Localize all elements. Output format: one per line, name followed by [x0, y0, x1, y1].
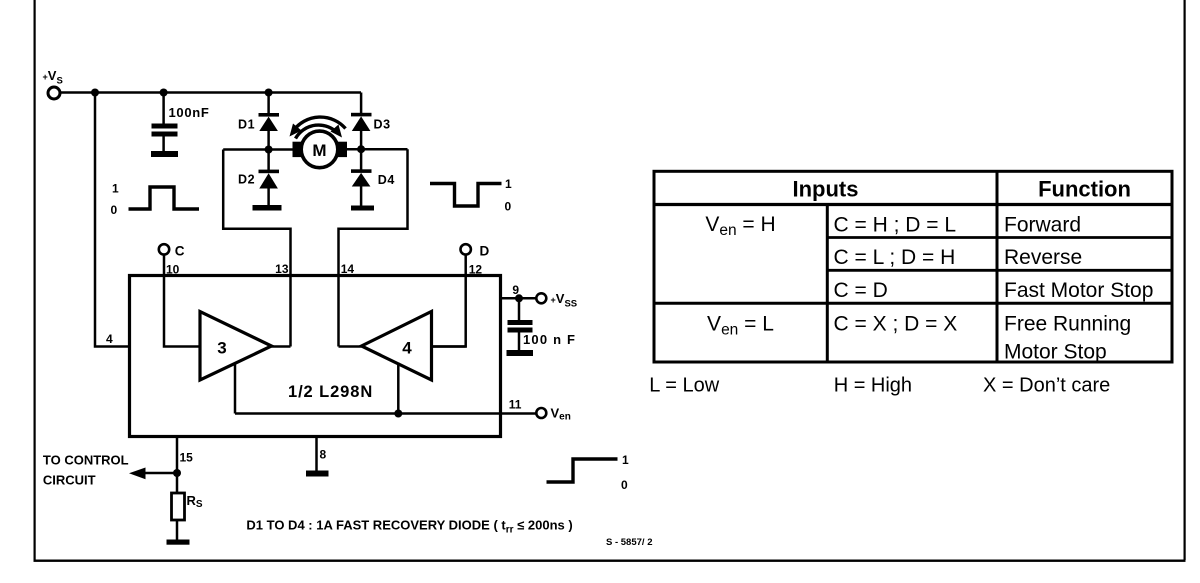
svg-text:RS: RS [187, 493, 203, 510]
page frame bottom border [34, 560, 1186, 562]
svg-text:Function: Function [1038, 177, 1131, 202]
svg-text:Free Running: Free Running [1004, 313, 1131, 336]
diode D4 wire top [360, 149, 363, 169]
svg-text:+VSS: +VSS [551, 291, 578, 310]
wire motor right [347, 148, 408, 151]
terminal Ven circle [536, 408, 546, 418]
svg-text:D: D [480, 244, 490, 259]
diode D3 cathode bar [351, 113, 372, 117]
pin 15 wire [176, 437, 179, 473]
svg-text:D4: D4 [378, 173, 395, 187]
svg-text:Ven: Ven [551, 406, 571, 423]
truth table header separator [654, 203, 1172, 206]
svg-text:D1 TO D4 : 1A FAST RECOVERY DI: D1 TO D4 : 1A FAST RECOVERY DIODE ( trr … [246, 518, 572, 536]
svg-text:1: 1 [505, 177, 512, 191]
wire enable rail to pin 11 [235, 412, 537, 415]
svg-text:M: M [312, 141, 326, 160]
wire D to pin 12 [432, 255, 466, 347]
ground bar under D4 [351, 206, 374, 211]
diode D4 wire bottom [360, 187, 363, 207]
op-amp 3 triangle [200, 312, 272, 381]
wire amp3 output to pin 13 [272, 345, 291, 348]
capacitor C2 wire [518, 298, 521, 320]
node motor left junction [265, 146, 273, 154]
capacitor C1 wire [162, 93, 165, 125]
node junction cap branch [160, 89, 168, 97]
wire right bracket to pin 14 [339, 149, 408, 346]
truth table column divider function [996, 171, 999, 362]
pin 8 wire [315, 437, 318, 471]
terminal +Vs circle [48, 87, 60, 99]
ground bar pin 8 [306, 471, 329, 477]
node motor right junction [357, 145, 365, 153]
svg-text:11: 11 [509, 398, 522, 412]
svg-text:D2: D2 [238, 173, 255, 187]
node pin 15 junction [173, 469, 181, 477]
svg-text:8: 8 [320, 448, 327, 462]
svg-text:C = D: C = D [834, 279, 888, 302]
svg-text:Forward: Forward [1004, 214, 1081, 237]
svg-text:100 n F: 100 n F [523, 332, 576, 347]
wire C to pin 10 [164, 255, 200, 347]
svg-text:4: 4 [106, 332, 113, 346]
diode D4 cathode bar [351, 169, 372, 173]
svg-text:Inputs: Inputs [793, 177, 859, 202]
rotation arrow outer arc [294, 117, 346, 130]
page frame right border [1184, 0, 1186, 560]
wire to pin 4 [95, 93, 130, 347]
diode D3 wire top [360, 93, 363, 114]
diode D2 wire top [267, 150, 270, 171]
svg-text:C = L ; D = H: C = L ; D = H [834, 246, 956, 269]
svg-text:3: 3 [217, 339, 226, 358]
waveform C input pulse [129, 187, 200, 209]
capacitor C1 plate top [152, 124, 178, 129]
diode D1 wire top [267, 93, 270, 114]
wire amp4 enable down [397, 363, 400, 414]
wire +Vs rail [61, 91, 362, 94]
svg-text:CIRCUIT: CIRCUIT [43, 472, 96, 487]
motor M body [301, 131, 338, 168]
resistor Rs wire bottom [176, 520, 179, 540]
capacitor C2 plate bottom [508, 328, 533, 333]
svg-text:14: 14 [341, 262, 355, 276]
node junction pin4 branch [91, 89, 99, 97]
capacitor C2 plate top [508, 320, 533, 325]
svg-text:4: 4 [402, 339, 412, 358]
capacitor C2 lower wire [518, 333, 521, 351]
svg-text:Motor Stop: Motor Stop [1004, 341, 1107, 364]
svg-text:TO CONTROL: TO CONTROL [43, 453, 129, 468]
pin 9 wire [501, 297, 537, 300]
ground bar under D2 [253, 205, 282, 211]
op-amp 4 triangle [362, 312, 432, 381]
svg-text:13: 13 [275, 262, 289, 276]
wire amp4 to pin 12 [432, 345, 466, 348]
wire amp3 enable down [234, 363, 237, 414]
terminal C circle [159, 244, 169, 254]
truth table outer border [654, 171, 1172, 362]
diode D4 triangle [352, 173, 371, 187]
diode D3 wire bottom [360, 131, 363, 149]
motor left brush [293, 142, 304, 157]
svg-text:9: 9 [512, 283, 519, 297]
truth table row line 3 [654, 302, 1172, 305]
diode D2 cathode bar [259, 170, 280, 174]
svg-text:0: 0 [621, 478, 628, 492]
svg-text:+VS: +VS [43, 68, 63, 87]
wire to control circuit [141, 472, 177, 475]
svg-text:D1: D1 [238, 118, 255, 132]
svg-text:1: 1 [622, 453, 629, 467]
svg-text:15: 15 [180, 451, 194, 465]
wire left bracket to pin 13 [223, 150, 290, 347]
svg-text:0: 0 [111, 203, 118, 217]
waveform D input inverted pulse [430, 184, 502, 207]
svg-text:C = X ; D = X: C = X ; D = X [834, 313, 958, 336]
diode D1 triangle [259, 117, 278, 131]
svg-text:D3: D3 [374, 118, 391, 132]
arrowhead to control circuit [129, 468, 146, 480]
truth table row line 1 [827, 236, 1172, 239]
rotation arrow inner arc [296, 125, 339, 138]
svg-text:Ven = H: Ven = H [705, 213, 775, 239]
svg-text:1: 1 [112, 182, 119, 196]
rotation arrow outer head [290, 124, 302, 137]
ground bar under Rs [167, 540, 190, 545]
svg-text:100nF: 100nF [169, 105, 210, 120]
node pin 9 junction [515, 294, 523, 302]
svg-text:X = Don’t care: X = Don’t care [983, 375, 1110, 397]
terminal D circle [461, 244, 471, 254]
svg-text:H = High: H = High [834, 375, 912, 397]
capacitor C1 plate bottom [152, 132, 178, 137]
rotation arrow inner head [331, 125, 343, 138]
svg-text:C: C [175, 244, 185, 259]
diode D1 cathode bar [259, 113, 280, 117]
svg-text:1/2 L298N: 1/2 L298N [288, 383, 373, 401]
IC U1 1/2 L298N box [130, 276, 501, 437]
svg-text:0: 0 [505, 200, 512, 214]
diode D3 triangle [352, 116, 371, 131]
svg-text:S - 5857/ 2: S - 5857/ 2 [606, 537, 652, 548]
resistor Rs wire top [176, 473, 179, 493]
waveform Ven step [547, 459, 618, 482]
wire pin 14 to amp4 input [339, 345, 362, 348]
wire motor left [223, 148, 292, 151]
page frame left border [34, 0, 36, 560]
resistor Rs body [172, 493, 185, 520]
node junction D1 branch [265, 89, 273, 97]
svg-text:C = H ; D = L: C = H ; D = L [834, 214, 957, 237]
diode D2 wire bottom [267, 189, 270, 206]
ground bar under C1 [151, 151, 178, 157]
svg-text:Fast Motor Stop: Fast Motor Stop [1004, 279, 1153, 302]
node enable junction [394, 410, 402, 418]
capacitor C1 lower wire [162, 137, 165, 152]
ground bar under C2 [507, 350, 534, 356]
truth table column divider inputs [826, 205, 829, 363]
svg-text:L = Low: L = Low [649, 375, 719, 397]
motor right brush [337, 142, 348, 157]
diode D2 triangle [259, 173, 278, 188]
diode D1 wire bottom [267, 131, 270, 150]
svg-text:Reverse: Reverse [1004, 246, 1082, 269]
svg-text:Ven = L: Ven = L [707, 313, 774, 339]
terminal +Vss circle [536, 293, 546, 303]
truth table row line 2 [827, 269, 1172, 272]
